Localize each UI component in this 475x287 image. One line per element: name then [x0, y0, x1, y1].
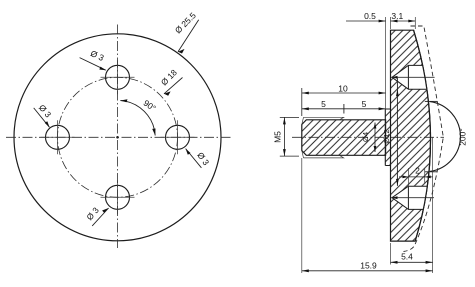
svg-text:Ø 3: Ø 3 [37, 103, 54, 120]
shaft body (hatched) [302, 120, 386, 156]
dim 10 [301, 88, 303, 116]
bottom hole centerline [391, 197, 434, 199]
svg-text:5.4: 5.4 [401, 252, 413, 262]
main axis centerline [292, 136, 444, 138]
leader D3 bottom hole [92, 208, 108, 226]
svg-text:5: 5 [362, 99, 367, 109]
ball arc [430, 102, 461, 172]
flange (hatched) [391, 30, 431, 241]
svg-text:Ø 3: Ø 3 [89, 48, 106, 63]
hole top [106, 65, 130, 89]
svg-text:10: 10 [338, 83, 348, 93]
leader D3 top hole [80, 58, 106, 71]
leader D3 left hole [34, 108, 50, 127]
top bolt hole (white cut) [392, 65, 427, 89]
svg-text:Ø12: Ø12 [382, 129, 391, 143]
dim 5 / 5 [302, 108, 386, 110]
outer circle D25.5 [14, 34, 221, 241]
M5 [280, 116, 299, 118]
90 degree dimension arc [120, 101, 155, 136]
thread crest top [302, 117, 344, 124]
leader D3 right hole [186, 149, 202, 168]
90 arc arrows [120, 99, 127, 102]
horizontal centerline [6, 136, 231, 138]
center dot [116, 136, 119, 139]
bolt circle D18 (dash-dot) [58, 77, 178, 197]
dim D12 between holes (vertical) [396, 78, 398, 186]
flange silhouette redraw [414, 30, 431, 241]
dim 3.1 [390, 17, 392, 29]
svg-text:5: 5 [321, 99, 326, 109]
vertical centerline [117, 25, 119, 249]
boss washer face [385, 109, 390, 166]
top hole centerline [391, 76, 435, 78]
svg-text:0.5: 0.5 [364, 11, 376, 21]
bottom bolt hole (white cut) [392, 186, 427, 209]
dim 15.9 [301, 158, 303, 273]
dim 0.5 [385, 17, 387, 110]
svg-text:Ø4: Ø4 [361, 132, 370, 142]
svg-text:2: 2 [415, 166, 420, 176]
svg-text:3.1: 3.1 [391, 11, 403, 21]
leader D18 [164, 78, 183, 94]
hole right [166, 125, 190, 149]
ticks at ball arc ends [425, 100, 438, 102]
leader D25.5 [178, 20, 199, 52]
hole left [46, 125, 70, 149]
svg-text:Ø 25.5: Ø 25.5 [173, 10, 198, 35]
svg-text:M5: M5 [273, 131, 283, 143]
dim D4 vertical [374, 123, 376, 153]
hidden dashed outline [404, 26, 444, 252]
svg-text:15.9: 15.9 [360, 260, 377, 270]
thread crest bottom [302, 151, 344, 158]
svg-text:Ø 3: Ø 3 [195, 150, 211, 167]
hole bottom [106, 185, 130, 209]
svg-text:Ø 18: Ø 18 [159, 67, 179, 87]
svg-text:200°: 200° [458, 128, 468, 146]
dim 2 [408, 168, 410, 192]
dim 5.4 [390, 243, 392, 265]
